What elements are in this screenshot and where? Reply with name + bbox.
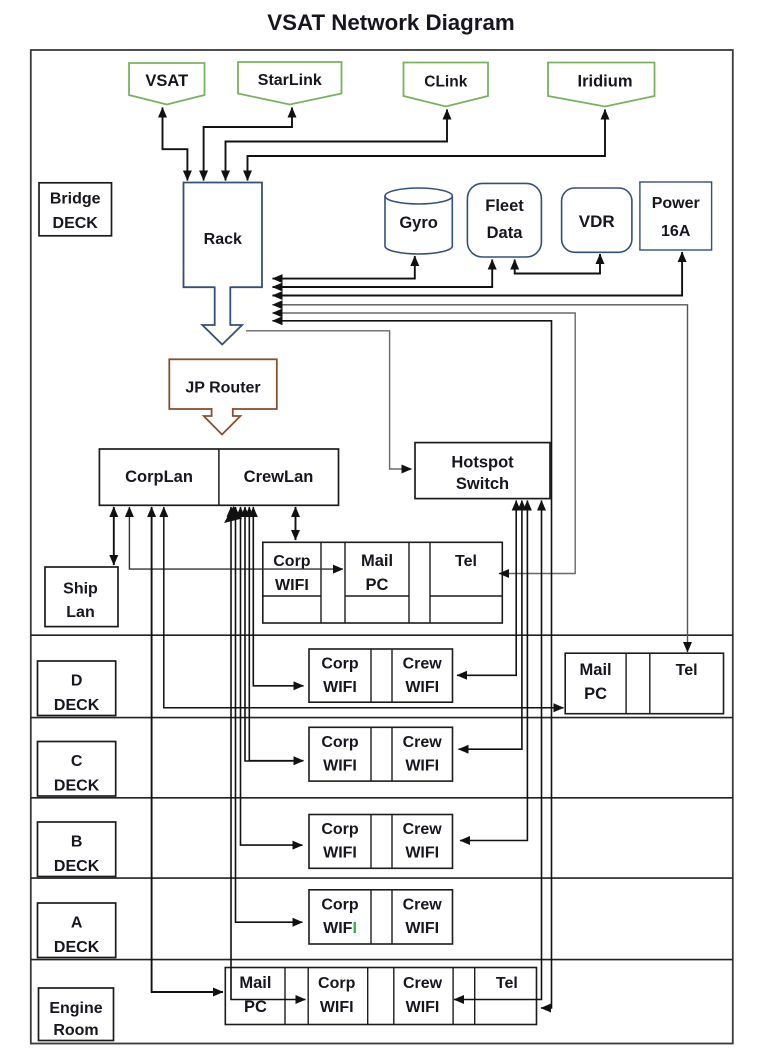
svg-text:WIFI: WIFI — [405, 679, 439, 696]
wire CLink to Rack — [226, 110, 448, 181]
wire StarLink to Rack — [204, 108, 292, 181]
svg-text:B: B — [71, 834, 83, 851]
svg-text:WIFI: WIFI — [405, 920, 439, 937]
svg-text:StarLink: StarLink — [258, 72, 322, 89]
antenna StarLink — [238, 62, 342, 105]
cluster extra arrowhead — [224, 506, 242, 523]
svg-text:Corp: Corp — [321, 734, 359, 751]
wire CrewLan cluster extra line — [245, 507, 303, 761]
svg-text:VSAT: VSAT — [145, 72, 188, 90]
svg-text:Corp: Corp — [321, 897, 359, 914]
bus wire 4 to D deck Tel — [273, 305, 688, 652]
label box Bridge DECK — [39, 183, 112, 236]
wire Hotspot to engine Crew WIFI — [454, 501, 542, 1000]
wire CrewLan to bridge table double arrow — [295, 507, 297, 540]
svg-text:WIFI: WIFI — [405, 758, 439, 775]
svg-text:Room: Room — [53, 1022, 98, 1039]
svg-text:Corp: Corp — [321, 821, 359, 838]
wire CrewLan cluster to engine Corp WIFI — [231, 507, 306, 1000]
label box A DECK — [38, 903, 116, 958]
svg-text:A: A — [71, 915, 83, 932]
svg-text:Crew: Crew — [403, 821, 443, 838]
A deck table Corp WIFI / Crew WIFI — [309, 890, 453, 944]
svg-text:WIFI: WIFI — [323, 920, 357, 937]
wire CrewLan cluster to A deck Corp WIFI — [236, 507, 303, 922]
deck divider D top — [31, 634, 733, 636]
outline arrow below JP Router — [204, 408, 241, 435]
svg-text:CorpLan: CorpLan — [125, 468, 193, 486]
svg-text:16A: 16A — [661, 223, 691, 240]
svg-text:WIFI: WIFI — [323, 845, 357, 862]
svg-text:PC: PC — [584, 685, 607, 703]
svg-text:Corp: Corp — [318, 975, 356, 992]
svg-text:DECK: DECK — [54, 939, 100, 956]
wire VSAT to Rack — [163, 108, 188, 181]
box Power 16A — [640, 182, 712, 250]
D deck right table Mail PC / Tel — [565, 653, 723, 714]
wire Hotspot to B deck Crew WIFI — [460, 501, 527, 841]
wire Hotspot to C deck Crew WIFI — [459, 501, 522, 750]
svg-text:C: C — [71, 753, 83, 770]
svg-text:DECK: DECK — [54, 778, 100, 795]
wire Hotspot to D deck Crew WIFI — [457, 501, 516, 676]
wire CrewLan cluster to D deck Corp WIFI — [253, 507, 303, 686]
engine room table Mail PC / Corp WIFI / Crew WIFI / Tel — [225, 968, 536, 1025]
deck divider A top — [31, 877, 733, 879]
D deck table Corp WIFI / Crew WIFI — [309, 649, 453, 702]
wire CorpLan to D deck Mail PC — [164, 507, 564, 708]
svg-text:WIFI: WIFI — [323, 679, 357, 696]
wire big arrow to Hotspot Switch — [246, 331, 412, 469]
svg-text:DECK: DECK — [54, 697, 100, 714]
wire Fleet Data to VDR bracket — [515, 254, 600, 274]
svg-text:Crew: Crew — [403, 897, 443, 914]
wire CrewLan cluster to B deck Corp WIFI — [241, 507, 303, 845]
router box JP Router — [169, 359, 276, 409]
svg-text:Ship: Ship — [63, 581, 98, 598]
label box C DECK — [38, 742, 116, 797]
svg-text:CLink: CLink — [424, 74, 467, 91]
wire CorpLan to engine room Mail PC — [152, 507, 223, 992]
wire CorpLan to Ship Lan double arrow — [113, 507, 115, 565]
svg-text:WIFI: WIFI — [406, 999, 440, 1016]
C deck table Corp WIFI / Crew WIFI — [309, 727, 453, 781]
svg-text:Corp: Corp — [321, 656, 359, 673]
wire Iridium to Rack — [248, 110, 606, 181]
svg-text:Lan: Lan — [66, 604, 94, 621]
svg-text:DECK: DECK — [54, 858, 100, 875]
svg-text:Engine: Engine — [49, 1000, 102, 1017]
svg-text:Gyro: Gyro — [399, 214, 438, 232]
svg-text:Mail: Mail — [239, 974, 271, 992]
svg-text:CrewLan: CrewLan — [244, 468, 314, 486]
antenna CLink — [404, 63, 489, 107]
deck divider B top — [31, 797, 733, 799]
svg-text:Tel: Tel — [455, 553, 477, 570]
svg-text:WIFI: WIFI — [323, 758, 357, 775]
rounded box Fleet Data — [467, 183, 541, 257]
svg-text:Mail: Mail — [580, 661, 612, 679]
svg-text:Crew: Crew — [403, 734, 443, 751]
svg-text:Mail: Mail — [361, 552, 393, 570]
svg-text:Rack: Rack — [204, 231, 242, 248]
label box D DECK — [38, 661, 116, 716]
svg-text:PC: PC — [244, 998, 267, 1016]
svg-text:PC: PC — [366, 576, 389, 594]
antenna VSAT — [129, 63, 205, 105]
bus wire 6 to engine room right — [273, 321, 552, 1008]
svg-text:VSAT Network Diagram: VSAT Network Diagram — [267, 10, 514, 35]
label box B DECK — [38, 822, 116, 877]
big outline arrow from Rack down — [202, 287, 242, 345]
deck divider C top — [31, 717, 733, 719]
bus wire 2 to Fleet Data — [273, 260, 493, 288]
box Hotspot Switch — [415, 443, 550, 499]
bus wire 3 to Power 16A — [273, 252, 683, 296]
svg-text:Hotspot: Hotspot — [451, 454, 514, 472]
svg-text:DECK: DECK — [53, 215, 99, 232]
wire CorpLan to bridge Mail PC — [129, 507, 343, 569]
svg-text:Iridium: Iridium — [577, 73, 632, 91]
antenna Iridium — [548, 63, 655, 107]
bridge table Corp WIFI / Mail PC / Tel — [263, 542, 503, 623]
deck divider Engine top — [31, 959, 733, 961]
switch box CorpLan CrewLan — [99, 449, 338, 505]
svg-text:Tel: Tel — [676, 662, 698, 679]
svg-text:Crew: Crew — [403, 975, 443, 992]
svg-text:WIFI: WIFI — [320, 999, 354, 1016]
svg-text:JP Router: JP Router — [185, 380, 260, 397]
equipment box Rack — [184, 183, 263, 288]
svg-text:Corp: Corp — [273, 553, 311, 570]
svg-text:D: D — [71, 673, 83, 690]
label box Engine Room — [39, 988, 114, 1041]
B deck table Corp WIFI / Crew WIFI — [309, 815, 453, 869]
svg-text:Switch: Switch — [456, 475, 509, 493]
svg-text:WIFI: WIFI — [275, 577, 309, 594]
bus wire 1 to Gyro — [273, 256, 415, 279]
storage cylinder Gyro — [385, 188, 452, 254]
svg-text:VDR: VDR — [579, 212, 615, 231]
svg-text:Fleet: Fleet — [485, 197, 524, 215]
svg-text:Tel: Tel — [496, 975, 518, 992]
svg-text:Power: Power — [652, 195, 700, 212]
wire CrewLan cluster to C deck Corp WIFI — [249, 507, 303, 761]
svg-text:WIFI: WIFI — [405, 845, 439, 862]
bus wire 5 to bridge Tel — [273, 313, 576, 574]
svg-text:Bridge: Bridge — [50, 191, 101, 208]
box Ship Lan — [45, 567, 118, 627]
rounded box VDR — [562, 188, 632, 252]
svg-text:Data: Data — [487, 224, 524, 242]
svg-text:Crew: Crew — [403, 656, 443, 673]
